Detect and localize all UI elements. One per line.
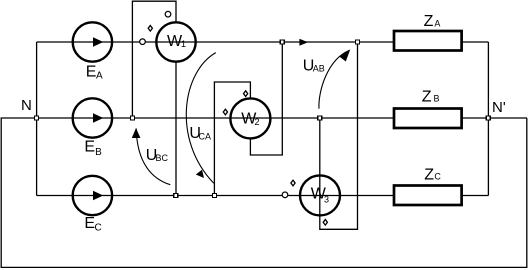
voltage arrow U_BC	[136, 129, 170, 185]
wattmeter W3	[300, 175, 340, 215]
node W1 voltage on B	[130, 116, 134, 120]
svg-text:CA: CA	[199, 131, 212, 141]
wire W2 bottom to node A	[250, 42, 282, 155]
svg-text:E: E	[84, 215, 95, 232]
svg-text:C: C	[434, 172, 441, 182]
node W2 voltage on A	[280, 40, 284, 44]
wire W1 bottom to node C	[175, 62, 177, 196]
svg-text:Z: Z	[424, 166, 434, 183]
node W1 bottom on C	[174, 194, 178, 198]
svg-text:C: C	[95, 223, 102, 234]
terminal circle W3 current coil	[282, 192, 288, 198]
svg-text:B: B	[95, 147, 102, 158]
wire phase B Z_B to N' to frame	[462, 117, 527, 119]
wire phase C line	[37, 195, 394, 197]
node W3 voltage on A	[356, 40, 360, 44]
polarity diamond W1	[148, 26, 152, 32]
impedance Z_C	[394, 186, 462, 206]
wattmeter W1	[156, 22, 195, 61]
svg-text:AB: AB	[313, 64, 325, 74]
polarity diamond W2 top	[244, 91, 248, 97]
impedance Z_B	[394, 109, 462, 129]
terminal circle W1 voltage coil	[165, 11, 171, 17]
wire W2 voltage coil to node C	[214, 82, 250, 196]
polarity diamond W3 bottom	[323, 220, 327, 226]
wire left source bus	[36, 42, 38, 196]
wattmeter W2	[230, 98, 270, 138]
voltage arrow U_AB	[319, 51, 349, 109]
node N'	[486, 116, 490, 120]
wire phase A to star point	[462, 41, 489, 43]
svg-text:A: A	[96, 71, 103, 82]
svg-text:Z: Z	[422, 88, 432, 105]
source E_B	[73, 98, 112, 137]
svg-text:1: 1	[181, 39, 186, 49]
node W3 top on B	[318, 116, 322, 120]
svg-text:E: E	[86, 64, 97, 81]
wire neutral N to frame and around to N'	[1, 118, 527, 267]
polarity diamond W2 left	[223, 109, 227, 115]
svg-text:3: 3	[324, 195, 329, 205]
svg-text:E: E	[84, 139, 95, 156]
wire right star-point bus	[487, 42, 489, 196]
wire phase B line	[37, 117, 394, 119]
wire phase A line	[37, 41, 394, 43]
svg-text:B: B	[434, 94, 440, 104]
wire phase C to star point	[462, 195, 489, 197]
terminal circle W1 current coil	[140, 39, 146, 45]
polarity diamond W3 left	[291, 180, 295, 186]
node W2 voltage on C	[212, 194, 216, 198]
svg-text:N: N	[21, 97, 32, 114]
wire W1 voltage coil to node B	[132, 1, 176, 118]
voltage arrow U_CA	[186, 53, 216, 184]
source E_C	[73, 176, 112, 215]
source E_A	[73, 22, 112, 61]
svg-text:A: A	[434, 18, 440, 28]
impedance Z_A	[394, 31, 462, 51]
svg-text:Z: Z	[424, 13, 434, 30]
node N	[35, 116, 39, 120]
svg-text:N': N'	[492, 99, 506, 116]
wire W3 top to node B through W3	[320, 42, 358, 229]
current direction arrow on phase A	[299, 39, 308, 46]
svg-text:2: 2	[255, 117, 260, 127]
svg-text:BC: BC	[156, 153, 169, 163]
